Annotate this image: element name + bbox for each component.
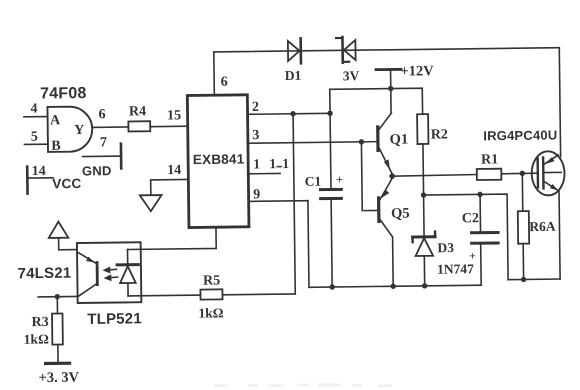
svg-text:6: 6 bbox=[98, 107, 105, 122]
svg-text:VCC: VCC bbox=[52, 176, 81, 191]
svg-text:R5: R5 bbox=[203, 273, 220, 288]
resistor R3 bbox=[23, 297, 63, 364]
svg-text:R1: R1 bbox=[481, 152, 498, 167]
svg-text:15: 15 bbox=[167, 108, 181, 123]
IGBT U3 IRG4PC40U bbox=[483, 127, 565, 196]
svg-text:4: 4 bbox=[30, 102, 37, 117]
wire bottom bus bbox=[309, 285, 481, 287]
svg-text:1: 1 bbox=[253, 157, 260, 172]
wire EXB841 pin 3 to Q1 base bbox=[248, 127, 377, 144]
ground triangle (pin 14) bbox=[140, 195, 162, 211]
wire EXB841 pin 14 to ground triangle bbox=[150, 163, 188, 195]
IC U1 EXB841 bbox=[187, 95, 249, 228]
svg-text:EXB841: EXB841 bbox=[193, 152, 245, 168]
resistor R2 bbox=[417, 114, 449, 195]
svg-text:+: + bbox=[469, 249, 476, 263]
resistor R6A bbox=[517, 173, 556, 280]
transistor Q1 bbox=[378, 113, 409, 174]
wire EXB841 pin 6 to top rail bbox=[214, 52, 228, 95]
svg-text:6: 6 bbox=[221, 75, 228, 90]
wire TLP521 emitter input left bbox=[38, 295, 77, 297]
svg-text:1: 1 bbox=[269, 157, 276, 172]
svg-text:C1: C1 bbox=[305, 174, 322, 189]
svg-text:9: 9 bbox=[253, 187, 260, 202]
node junction pin2 / C1 column bbox=[327, 111, 332, 116]
svg-text:D1: D1 bbox=[285, 68, 302, 83]
svg-text:D3: D3 bbox=[437, 240, 454, 255]
svg-text:+: + bbox=[336, 172, 343, 186]
resistor R1 bbox=[477, 152, 502, 180]
wire gate input A pin 4 bbox=[24, 101, 48, 116]
svg-text:14: 14 bbox=[32, 164, 46, 179]
svg-text:14: 14 bbox=[167, 163, 181, 178]
faint caption remnants at bottom edge bbox=[214, 384, 392, 388]
node junction R3 / input bbox=[55, 294, 60, 299]
svg-text:1kΩ: 1kΩ bbox=[24, 331, 49, 346]
AND gate 74F08 U2 bbox=[40, 85, 93, 154]
node junction Q1 emitter / Q5 / gate wire bbox=[389, 173, 395, 179]
svg-text:C2: C2 bbox=[462, 211, 479, 226]
wire TLP521 output to R5 bbox=[128, 294, 200, 297]
svg-text:74F08: 74F08 bbox=[40, 85, 87, 103]
wire +12V node right to R2 bbox=[391, 88, 423, 114]
svg-text:3: 3 bbox=[252, 128, 259, 143]
node junction R2-D3 bbox=[421, 192, 426, 197]
label 74LS21 bbox=[18, 265, 72, 283]
wire EXB841 pin 1 stub, net 1_1 bbox=[248, 157, 289, 174]
power pin 14 VCC stub bbox=[27, 164, 81, 194]
node junction +12V bbox=[388, 86, 393, 91]
transistor Q5 bbox=[378, 178, 410, 286]
resistor R4 bbox=[128, 104, 150, 131]
power +12V supply bbox=[376, 63, 435, 113]
wire EXB841 pin 2 bbox=[247, 99, 330, 115]
svg-text:+12V: +12V bbox=[400, 63, 434, 79]
svg-text:GND: GND bbox=[82, 163, 112, 178]
svg-text:R2: R2 bbox=[431, 127, 448, 142]
zener diode D3 1N747 bbox=[412, 194, 474, 286]
power +3.3V bar bbox=[38, 363, 79, 386]
wire gate input B pin 5 bbox=[24, 129, 48, 144]
wire R4 to EXB841 pin 15 bbox=[150, 108, 188, 126]
svg-text:1: 1 bbox=[282, 157, 289, 172]
wire top rail bbox=[214, 48, 559, 52]
power triangle above TLP521 bbox=[49, 221, 77, 250]
svg-text:74LS21: 74LS21 bbox=[18, 265, 72, 283]
svg-text:IRG4PC40U: IRG4PC40U bbox=[483, 127, 557, 143]
wire IGBT emitter rail bbox=[507, 192, 560, 280]
wire EXB841 pin 9 down to bottom bus bbox=[248, 187, 309, 288]
power pin 7 GND stub bbox=[82, 135, 122, 178]
svg-text:2: 2 bbox=[252, 100, 259, 115]
node junction D3 / bottom bus bbox=[422, 283, 427, 288]
zener diode 3V bbox=[336, 37, 360, 84]
wire Q5 base branch bbox=[361, 142, 377, 211]
svg-text:1N747: 1N747 bbox=[437, 261, 474, 276]
wire R1 to IGBT gate bbox=[501, 172, 536, 175]
svg-text:+3. 3V: +3. 3V bbox=[38, 370, 79, 386]
diode D1 bbox=[284, 38, 301, 83]
wire IGBT collector to top rail bbox=[559, 48, 560, 157]
svg-text:Q5: Q5 bbox=[391, 206, 410, 222]
wire +12V node left to C1 column bbox=[330, 88, 391, 91]
svg-text:TLP521: TLP521 bbox=[87, 310, 142, 328]
node rail between R2/D3/C2 bbox=[424, 194, 509, 281]
node junction pin2 / R5 riser bbox=[290, 111, 295, 116]
wire TLP521 cathode to EXB841 bottom pin bbox=[127, 227, 216, 249]
wire R5 to riser bbox=[222, 293, 295, 296]
svg-text:1kΩ: 1kΩ bbox=[198, 305, 223, 320]
svg-text:R3: R3 bbox=[31, 315, 48, 330]
capacitor C2 bbox=[462, 194, 499, 285]
node junction gate / R6A top bbox=[520, 171, 525, 176]
node junction R6A / emitter rail bbox=[521, 277, 526, 282]
node junction C2 top bbox=[477, 192, 482, 197]
svg-text:5: 5 bbox=[31, 130, 38, 145]
svg-text:7: 7 bbox=[100, 135, 107, 150]
svg-text:3V: 3V bbox=[343, 68, 360, 83]
svg-text:A: A bbox=[50, 113, 61, 128]
wire gate drive node to R1 bbox=[392, 175, 477, 177]
node junction pin3 / Q5 base branch bbox=[359, 139, 364, 144]
svg-text:B: B bbox=[51, 139, 61, 154]
svg-text:R4: R4 bbox=[129, 104, 146, 119]
node junction Q5 collector / bottom bus bbox=[390, 284, 395, 289]
resistor R5 bbox=[198, 273, 224, 320]
optocoupler TLP521 U4 bbox=[77, 242, 142, 328]
wire gate output pin 6 to R4 bbox=[92, 107, 128, 127]
svg-text:R6A: R6A bbox=[529, 219, 556, 234]
svg-text:Q1: Q1 bbox=[390, 132, 409, 148]
node junction C1 / bottom bus bbox=[329, 284, 334, 289]
wire R5 riser from pin2 node down to R5 bbox=[293, 114, 295, 294]
svg-text:Y: Y bbox=[74, 123, 84, 138]
capacitor C1 bbox=[304, 89, 345, 287]
